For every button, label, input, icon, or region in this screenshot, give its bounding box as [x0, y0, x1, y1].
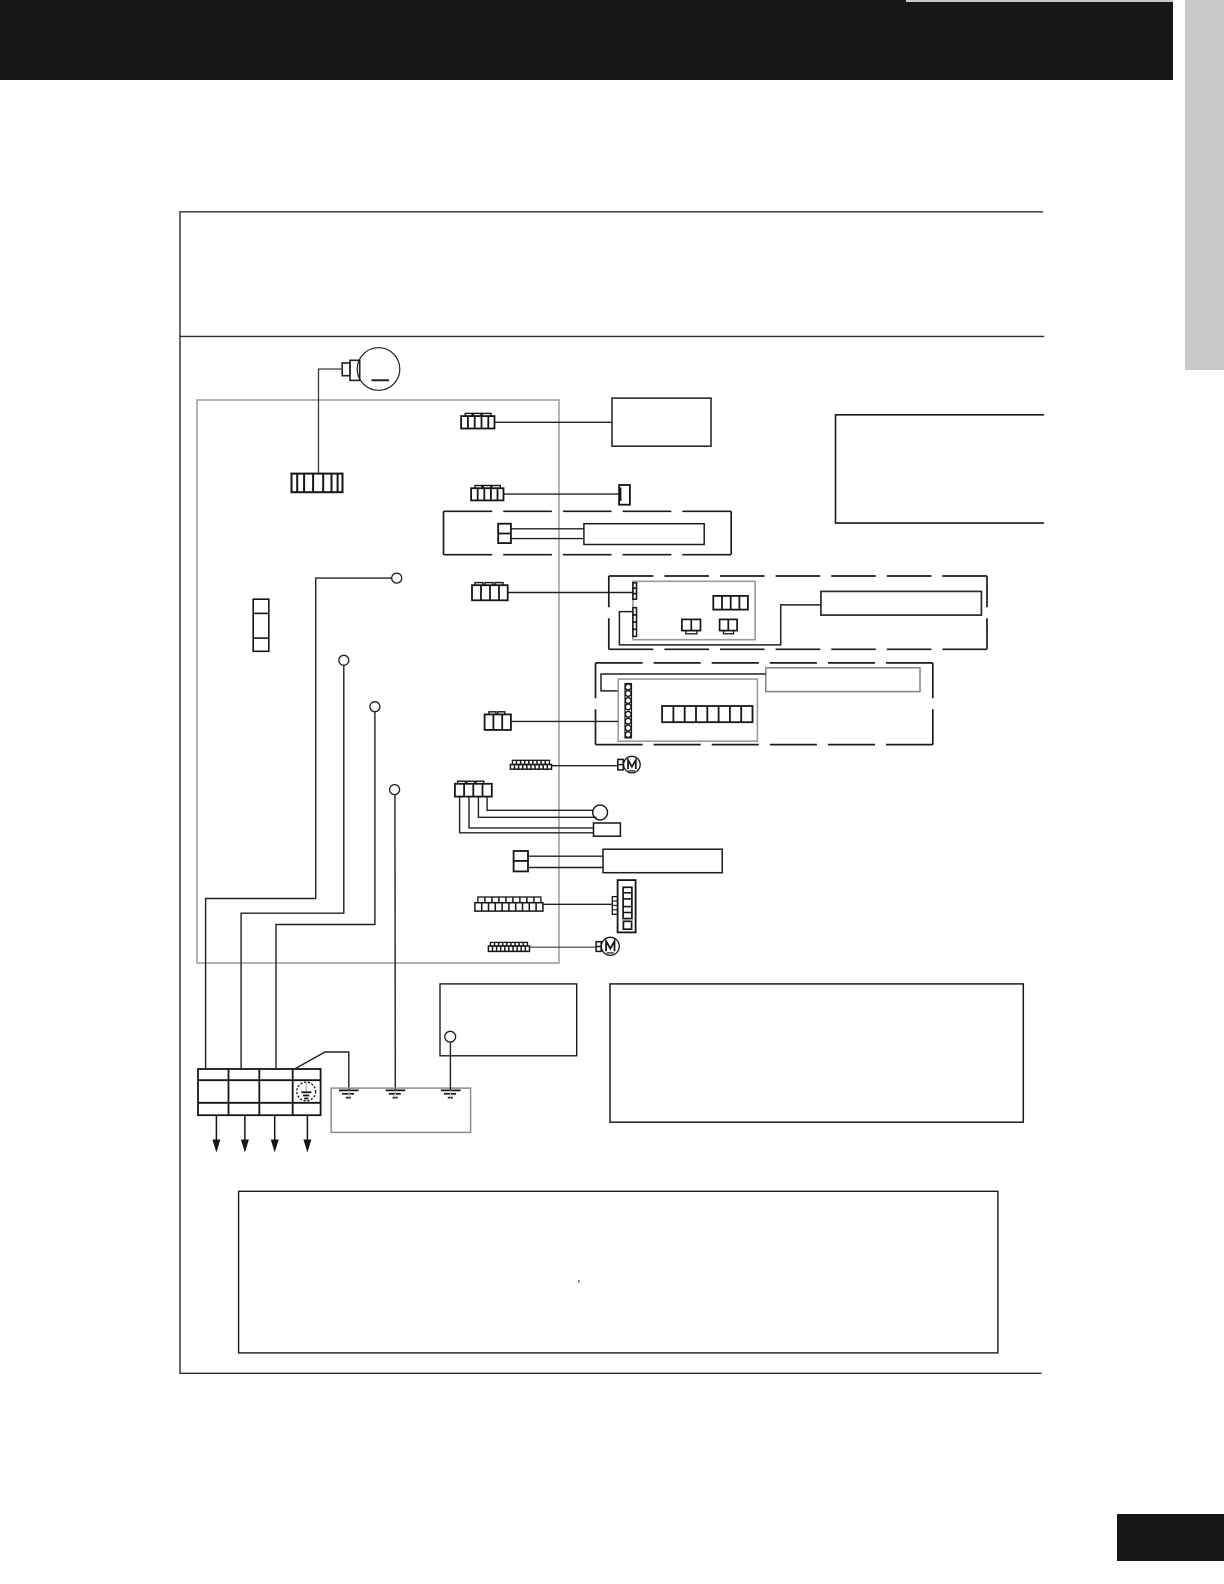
- wire C3 to terminal col3: [276, 712, 375, 1069]
- main PCB outline: [197, 400, 559, 963]
- wire CN4 to control board: [508, 592, 634, 594]
- node circle C3: [370, 702, 380, 712]
- wire CN7 pin1 to sensor T2: [460, 797, 594, 833]
- sensor T2: [594, 823, 621, 836]
- right sidebar tab: [1185, 0, 1224, 370]
- dashed box D2: [609, 576, 987, 649]
- supply arrow 1: [212, 1115, 220, 1152]
- wire CN7 pin2 to sensor T2: [469, 797, 594, 828]
- display board R2: [821, 591, 982, 615]
- fuse F1: [253, 599, 269, 651]
- connector CN6: [485, 712, 511, 730]
- node circle C5: [445, 1031, 456, 1042]
- wire TB2 col4 to ground bar: [295, 1052, 349, 1090]
- wire G1 to R2: [619, 605, 821, 645]
- wire CN7 pin4 to thermistor T1: [487, 797, 593, 811]
- node circle C2: [339, 655, 349, 665]
- crimp strip H3: [488, 942, 529, 951]
- wire C1 to terminal col1: [206, 578, 392, 1069]
- connector CN3 on G1: [713, 596, 748, 610]
- power board R4: [603, 849, 722, 873]
- terminal block TB2: [198, 1069, 321, 1115]
- valve connector V1: [612, 880, 635, 932]
- ground bar box: [331, 1088, 471, 1132]
- bottom-right page tab: [1117, 1514, 1224, 1561]
- wire C4 to ground bar: [394, 795, 396, 1091]
- box B2: [440, 984, 577, 1056]
- connector CN4: [472, 583, 508, 601]
- reactor S2: [514, 851, 528, 871]
- wires S2 to R4: [528, 855, 603, 857]
- relay K1: [682, 619, 701, 633]
- wire CN1 to box B1: [495, 421, 613, 423]
- motor M2: [596, 937, 619, 955]
- terminal strip TB1: [292, 474, 343, 493]
- compressor protector circle: [342, 348, 400, 391]
- motor M1: [618, 756, 640, 773]
- note box B3: [610, 984, 1023, 1122]
- wire CN6 to G2: [511, 720, 618, 722]
- wire C5 to ground symbol 3: [449, 1042, 451, 1090]
- connector CN7: [455, 781, 492, 796]
- reactor S1: [498, 524, 511, 543]
- connector CN2: [471, 486, 503, 501]
- wire H3 to motor M2: [530, 946, 597, 948]
- wire compressor to terminal strip: [319, 369, 343, 473]
- wire C2 to terminal col2: [241, 665, 344, 1069]
- diagram frame: [179, 212, 1044, 1374]
- ground symbol 2: [386, 1090, 406, 1097]
- rect R1: [584, 524, 704, 545]
- note box B5: [239, 1191, 998, 1353]
- stray dot: [578, 1280, 580, 1282]
- display board R3: [766, 668, 920, 692]
- connector CN1: [461, 413, 494, 428]
- node circle C4: [390, 785, 400, 795]
- thermistor T1: [593, 805, 608, 820]
- wires S1 to R1: [511, 528, 584, 530]
- supply arrow 4: [303, 1115, 311, 1152]
- crimp strip H2: [475, 897, 543, 911]
- dashed box D1: [444, 511, 732, 554]
- G1 edge pin ticks: [633, 583, 637, 637]
- wire H2 to valve connector V1: [543, 903, 612, 905]
- box B1: [612, 398, 711, 446]
- wire CN2 to jumper J1: [504, 493, 620, 495]
- ground mark in TB2: [297, 1082, 316, 1101]
- relay K2: [720, 619, 738, 633]
- ground symbol 3: [441, 1090, 461, 1097]
- header bar: [0, 0, 1173, 80]
- dashed box D3: [596, 663, 933, 745]
- connector CN5 on G2: [662, 706, 752, 722]
- control board G2: [618, 679, 757, 741]
- wire R3 to G2: [601, 674, 766, 691]
- control board G1: [633, 581, 755, 639]
- ground symbol 1: [339, 1090, 359, 1097]
- crimp strip H1: [510, 760, 551, 769]
- G2 pin hole column: [625, 684, 632, 738]
- supply arrow 2: [241, 1115, 249, 1152]
- wire CN7 pin3 to thermistor T1: [478, 797, 596, 818]
- supply arrow 3: [271, 1115, 279, 1152]
- legend box B4 (open right): [836, 415, 1044, 523]
- header top notch: [906, 0, 1173, 2]
- node circle C1: [392, 573, 402, 583]
- jumper J1: [619, 485, 630, 505]
- wire H1 to motor M1: [552, 765, 618, 767]
